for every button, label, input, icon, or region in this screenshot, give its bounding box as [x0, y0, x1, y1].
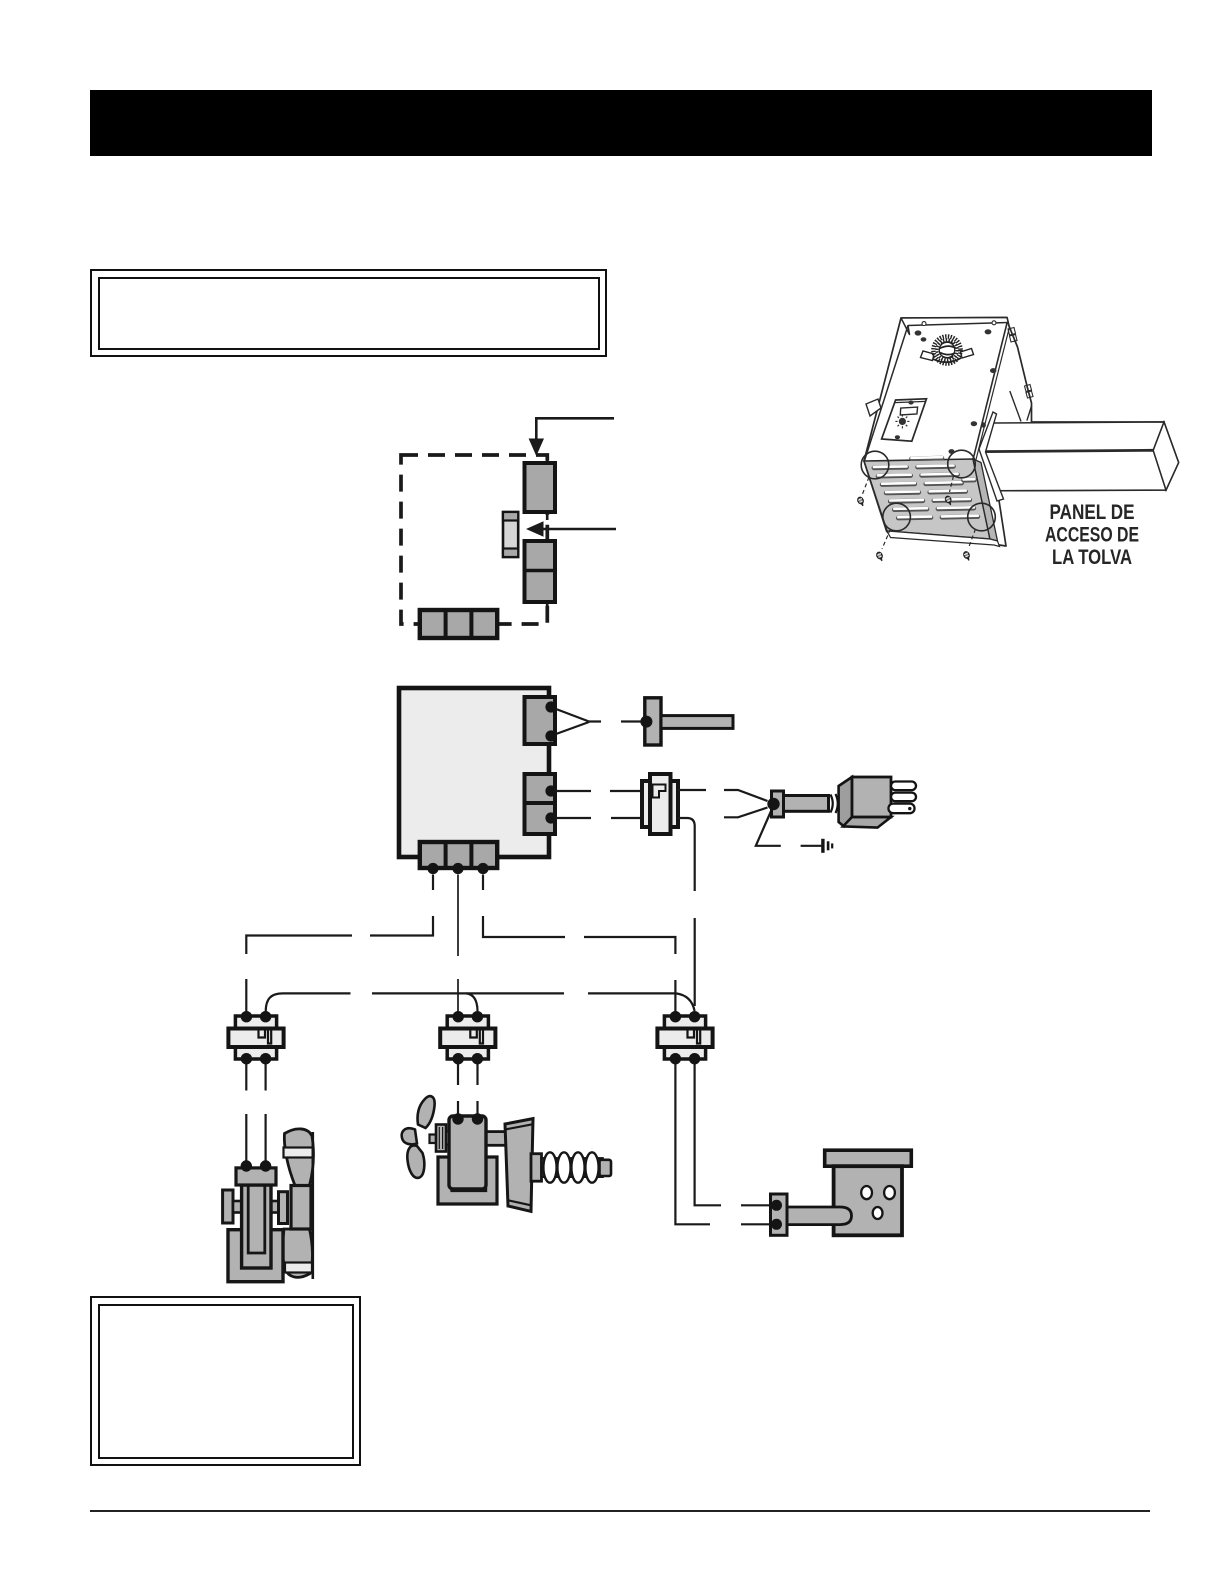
magnifier circle C4 [968, 503, 996, 531]
screw S1 with leader [857, 477, 869, 507]
control board PCB U1 [399, 688, 549, 857]
auger tube [983, 422, 1178, 491]
hopper assembly outline [864, 318, 1179, 547]
connector CN2 [525, 774, 556, 834]
Pit Boss logo badge [921, 336, 974, 363]
node CN1 pins [545, 701, 556, 741]
lid hinge pins [922, 321, 996, 326]
fuse F1 [503, 512, 518, 557]
connector P3 (3-gang) [420, 610, 497, 638]
hinge detail upper [1008, 328, 1017, 343]
svg-text:ACCESO DE: ACCESO DE [1045, 524, 1139, 547]
magnifier circle C1 [861, 451, 889, 479]
node CN2 pins [545, 785, 556, 823]
wire ground lead [756, 810, 822, 846]
label PANEL DE ACCESO DE LA TOLVA [1045, 501, 1139, 569]
magnifier circle C3 [883, 503, 911, 531]
connector J2 (fan) [228, 1011, 283, 1064]
note box bottom [90, 1296, 361, 1466]
wire neutral bus [266, 993, 695, 1012]
connector J4 (igniter) [657, 1011, 712, 1064]
wire auger branch [457, 875, 459, 1013]
auger motor M2 [402, 1096, 611, 1211]
node cord junction [767, 798, 779, 810]
screw S3 with leader [876, 529, 891, 562]
wire arrow to connector P1 [529, 418, 614, 456]
wire fan branch [246, 875, 433, 1013]
footer rule [90, 1510, 1150, 1512]
wire plug splice [724, 790, 768, 817]
svg-text:LA TOLVA: LA TOLVA [1052, 546, 1132, 569]
connector P1 [525, 455, 556, 520]
node probe junction [640, 716, 652, 728]
wire arrow to fuse F1 [526, 521, 616, 536]
hopper lid band [901, 318, 1008, 335]
burn pot [825, 1150, 912, 1235]
screw heads on lid [915, 329, 997, 454]
power cord [784, 794, 843, 814]
wire power leads [556, 791, 643, 818]
wire fan leads [246, 1064, 265, 1161]
connector J3 (auger) [440, 1011, 495, 1064]
temperature probe RTD [645, 698, 733, 745]
magnifier circle C2 [948, 450, 976, 478]
power plug PL1 [839, 777, 916, 828]
connector CN3 board bottom [420, 842, 497, 868]
hinge detail lower [1025, 385, 1034, 399]
ground symbol [823, 839, 832, 853]
screw S4 with leader [963, 529, 976, 561]
wire line to plug [678, 790, 706, 1006]
access panel vent slots [874, 457, 978, 518]
control board dashed outline [401, 455, 547, 624]
power connector J1 [642, 774, 678, 834]
hopper top face fold lines [865, 322, 1010, 462]
note box top [90, 269, 607, 357]
header bar [90, 90, 1152, 156]
access panel [864, 459, 990, 539]
access panel skirt [887, 531, 1000, 547]
hopper right wall V notch [1010, 391, 1032, 422]
wire igniter branch [483, 875, 675, 1013]
wire igniter leads [675, 1064, 770, 1224]
connector CN1 [525, 697, 556, 744]
screw S2 with leader [945, 476, 954, 506]
node CN3 pins [427, 863, 488, 874]
access panel side edge [973, 459, 998, 541]
connector P2 [525, 533, 556, 608]
svg-text:PANEL DE: PANEL DE [1050, 501, 1135, 524]
wire auger leads [458, 1064, 478, 1114]
wire probe leads [556, 709, 641, 734]
fan motor M1 [223, 1129, 314, 1282]
igniter IG1 [771, 1194, 852, 1235]
wire bus tap to auger connector [466, 993, 478, 1011]
tube mounting flange [979, 412, 1004, 501]
control panel [882, 399, 927, 441]
hopper left flange [866, 399, 881, 416]
power cord strain relief [772, 791, 784, 817]
